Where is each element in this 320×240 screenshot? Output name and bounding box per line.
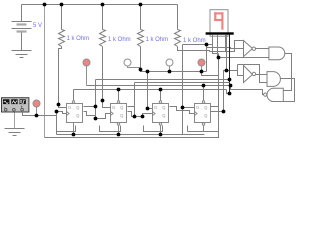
flip-flop U3 bbox=[111, 101, 127, 135]
wire staple S3 bbox=[144, 126, 163, 132]
wire Q2bar jog bbox=[128, 112, 143, 117]
inverter U6 bbox=[244, 41, 269, 57]
probe P2 white bbox=[124, 59, 141, 68]
wire V219 column bbox=[218, 54, 220, 132]
bus bar under display bbox=[206, 32, 234, 34]
junction display pin node bbox=[205, 43, 209, 47]
svg-text:5 V: 5 V bbox=[33, 23, 42, 29]
junction AND1 input tap bbox=[217, 56, 221, 60]
wire R3 net step bbox=[141, 47, 148, 72]
wire V207 bbox=[206, 45, 208, 72]
junction R1 net node bbox=[57, 103, 61, 107]
wire battery to rail bbox=[21, 5, 23, 22]
battery V1 bbox=[12, 22, 32, 51]
wire L3 clear run bbox=[87, 85, 231, 87]
wire FF4 D feed down bbox=[182, 111, 184, 135]
probe P4 red bbox=[198, 59, 205, 72]
junction clock node bbox=[55, 110, 59, 114]
wire staple S1 bbox=[57, 126, 76, 132]
wire R3 net to FF3 D bbox=[148, 72, 153, 109]
junction FF4 preset bbox=[202, 84, 206, 88]
resistor R1 bbox=[59, 30, 65, 47]
wire pin1 bbox=[213, 35, 219, 54]
junction probe P3 tap bbox=[168, 70, 172, 74]
junction rail-R3 bbox=[139, 3, 143, 7]
junction rail-R1 bbox=[60, 3, 64, 7]
function generator XFG1 bbox=[2, 98, 29, 112]
wire V134 column bbox=[134, 83, 136, 117]
junction Q4bar tap bbox=[222, 110, 226, 114]
wire V227 from bar bbox=[226, 35, 228, 71]
wire FF4 preset bbox=[203, 86, 205, 101]
wire V96 column bbox=[95, 80, 97, 119]
junction probe P4 tap bbox=[200, 70, 204, 74]
junction rail-5V drop bbox=[43, 3, 47, 7]
junction R2-FF2 D bbox=[101, 99, 105, 103]
seven segment display U1 box bbox=[210, 10, 228, 37]
digit 9 segments bbox=[214, 12, 223, 29]
wire rail B bbox=[45, 132, 219, 138]
wire P4 drop run bbox=[202, 72, 219, 76]
junction Q2 net node bbox=[133, 115, 137, 119]
junction bus-NAND out bbox=[228, 92, 232, 96]
wire Q2 tap bbox=[128, 106, 135, 108]
wires middle band bbox=[23, 45, 231, 135]
svg-text:1 k Ohm: 1 k Ohm bbox=[108, 37, 131, 43]
wire H47 inv1 feed bbox=[207, 48, 244, 49]
wire AND2 route over inv2 bbox=[238, 65, 268, 83]
wire L5 stub to NAND out bbox=[227, 90, 230, 94]
svg-text:D: D bbox=[154, 105, 157, 110]
wire L1 Q1 run bbox=[96, 79, 230, 81]
ground GND2 bbox=[5, 129, 25, 136]
wire Q4 to inv2 feed bbox=[224, 71, 244, 112]
flip-flop U2 bbox=[67, 101, 83, 135]
junction railA-FF1 bbox=[72, 133, 76, 137]
wire fn common to ground bbox=[14, 113, 16, 129]
wire pin2 AND1 lower input bbox=[218, 35, 269, 58]
wire rail to R1 bbox=[61, 5, 63, 30]
junction rail-R2 bbox=[101, 3, 105, 7]
flip-flop U5 bbox=[195, 101, 211, 132]
wire 5V drop to bottom rail bbox=[44, 5, 46, 138]
wire rail to R3 bbox=[140, 5, 142, 30]
wire H44 bbox=[183, 44, 213, 46]
wire clk3 step bbox=[143, 114, 153, 117]
wire FF2 preset bbox=[118, 90, 120, 101]
svg-text:1 k Ohm: 1 k Ohm bbox=[183, 38, 206, 44]
wire R2 to FF2 D bbox=[103, 47, 111, 108]
junction clock-probe P0 bbox=[35, 114, 39, 118]
probe P3 white bbox=[166, 59, 173, 72]
junction clk2 feed bbox=[94, 117, 98, 121]
wire FF3 preset bbox=[160, 90, 162, 101]
wire Q3 to clk4 bbox=[170, 107, 195, 114]
wire V238 bbox=[237, 65, 239, 71]
resistor R2 bbox=[100, 30, 106, 47]
AND gate U7 bbox=[269, 47, 292, 91]
junction bus-Q4bar net bbox=[225, 69, 229, 73]
wire NAND3 feedback left bbox=[231, 86, 264, 95]
junction FF3 preset bbox=[159, 88, 163, 92]
wire rail corner to R4 bbox=[177, 5, 179, 30]
wires flip-flop chain bbox=[45, 80, 224, 138]
svg-text:1 k Ohm: 1 k Ohm bbox=[67, 36, 90, 42]
svg-text:D: D bbox=[196, 105, 199, 110]
junction FF3 D node bbox=[146, 107, 150, 111]
wire H51 step to inv1 top bbox=[210, 41, 244, 52]
wire FF1 preset bbox=[73, 90, 75, 101]
ground GND1 bbox=[12, 51, 32, 58]
wire pin3 bbox=[225, 35, 227, 52]
wire FF4 D feed bbox=[177, 45, 183, 111]
junction FF2 preset bbox=[117, 88, 121, 92]
svg-text:D: D bbox=[112, 105, 115, 110]
svg-text:1 k Ohm: 1 k Ohm bbox=[146, 37, 169, 43]
wire Q1 tap bbox=[84, 106, 96, 108]
probe P1 red bbox=[83, 59, 90, 86]
wire rail A bbox=[57, 134, 205, 136]
inverter U8 bbox=[244, 66, 268, 83]
wire staple S4 stub bbox=[187, 126, 189, 132]
junction FF4 D tap bbox=[181, 106, 185, 110]
wire staple S2 bbox=[100, 126, 121, 132]
junction clear-feedback bbox=[229, 84, 233, 88]
junction bus-L1 bbox=[228, 78, 232, 82]
wire top rail bbox=[22, 4, 178, 6]
wire M1 probes run bbox=[148, 71, 207, 73]
AND gate U9 bbox=[267, 72, 295, 102]
wire R4 net run bbox=[178, 47, 210, 52]
bus wire vertical black bbox=[229, 35, 231, 94]
NAND gate U10 mirrored bbox=[264, 88, 284, 101]
junction R3 net node bbox=[146, 70, 150, 74]
junction railA-FF3 bbox=[159, 133, 163, 137]
junction Q1 tap bbox=[94, 105, 98, 109]
svg-text:D: D bbox=[68, 105, 71, 110]
wire rail to R2 bbox=[102, 5, 104, 30]
junction clk3 feed bbox=[141, 115, 145, 119]
wire clock to bottom rail bbox=[56, 116, 58, 135]
probe P0 red bbox=[33, 100, 40, 116]
wire Q1bar jog bbox=[84, 112, 96, 116]
wire clk2 step bbox=[96, 114, 111, 119]
wire FF4 D tap bbox=[183, 107, 195, 109]
flip-flop U4 bbox=[153, 101, 169, 135]
junction R3-probe P2 bbox=[139, 68, 143, 72]
wire Q4bar out bbox=[211, 111, 224, 113]
resistor R4 bbox=[175, 30, 181, 47]
wire Q4 out bbox=[211, 106, 219, 108]
wires display pin tangle bbox=[178, 35, 269, 132]
junction railA-FF2 bbox=[117, 133, 121, 137]
wire fn clock run bbox=[23, 112, 67, 116]
wire L2 Q2 run bbox=[135, 82, 230, 84]
wire L5 preset run bbox=[74, 89, 227, 91]
resistor R3 bbox=[138, 30, 144, 47]
wire R1 to FF1 D bbox=[59, 47, 67, 108]
